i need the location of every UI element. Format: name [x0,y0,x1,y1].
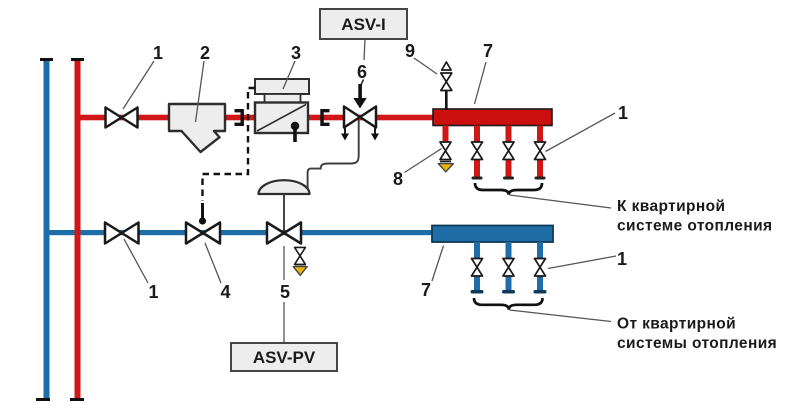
svg-text:системе отопления: системе отопления [617,218,772,235]
svg-text:1: 1 [618,103,628,123]
svg-text:8: 8 [393,169,403,189]
svg-text:4: 4 [220,282,230,302]
svg-text:2: 2 [200,43,210,63]
svg-text:системы отопления: системы отопления [617,335,777,352]
svg-text:1: 1 [148,282,158,302]
svg-text:От квартирной: От квартирной [617,316,736,333]
svg-text:7: 7 [483,41,493,61]
svg-text:7: 7 [421,280,431,300]
svg-text:1: 1 [617,249,627,269]
svg-text:ASV-PV: ASV-PV [253,348,316,367]
svg-text:ASV-I: ASV-I [341,15,385,34]
svg-text:9: 9 [405,41,415,61]
svg-text:1: 1 [153,43,163,63]
svg-text:3: 3 [291,43,301,63]
svg-text:К квартирной: К квартирной [617,198,725,215]
svg-text:6: 6 [357,62,367,82]
svg-text:5: 5 [280,282,290,302]
